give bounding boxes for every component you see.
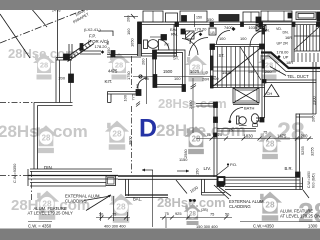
svg-text:1050: 1050 <box>130 38 135 47</box>
svg-text:200: 200 <box>59 76 66 81</box>
svg-text:600 (G/D): 600 (G/D) <box>312 173 316 188</box>
svg-text:1750: 1750 <box>126 71 131 80</box>
svg-text:150: 150 <box>195 168 200 175</box>
svg-text:BATH: BATH <box>244 106 254 111</box>
svg-text:D: D <box>139 115 157 143</box>
svg-text:150: 150 <box>248 69 255 74</box>
svg-text:350: 350 <box>106 47 111 54</box>
svg-text:VD.: VD. <box>276 27 282 31</box>
svg-text:75: 75 <box>207 132 211 137</box>
svg-text:100: 100 <box>126 28 131 35</box>
svg-text:CH: CH <box>267 91 273 96</box>
svg-text:2300: 2300 <box>312 96 317 105</box>
svg-text:1035: 1035 <box>249 25 258 30</box>
svg-text:90: 90 <box>106 41 110 45</box>
svg-text:LB: LB <box>211 31 216 35</box>
svg-text:TEL. DUCT: TEL. DUCT <box>287 74 309 79</box>
svg-text:200: 200 <box>126 15 131 22</box>
svg-text:C.W.=4350: C.W.=4350 <box>253 224 275 229</box>
svg-text:(LX2-41.): (LX2-41.) <box>84 27 101 32</box>
svg-text:150 300 400: 150 300 400 <box>196 224 218 229</box>
svg-text:200: 200 <box>311 115 316 122</box>
svg-text:200: 200 <box>301 134 309 139</box>
svg-text:1535: 1535 <box>222 70 232 75</box>
svg-text:DN.: DN. <box>283 31 289 35</box>
svg-text:C.W. = 4350: C.W. = 4350 <box>28 224 52 229</box>
svg-text:75: 75 <box>165 211 169 216</box>
svg-text:C.W.=1650: C.W.=1650 <box>307 171 311 188</box>
svg-text:RM.: RM. <box>171 32 178 37</box>
svg-text:18R: 18R <box>286 60 293 65</box>
svg-text:100: 100 <box>174 76 181 81</box>
svg-text:F.P.: F.P. <box>89 34 96 39</box>
svg-text:200: 200 <box>141 58 146 65</box>
svg-text:(2B): (2B) <box>201 208 208 212</box>
svg-text:925: 925 <box>175 211 182 216</box>
svg-text:5255: 5255 <box>300 146 305 155</box>
svg-text:150: 150 <box>196 16 202 20</box>
svg-text:75: 75 <box>263 130 267 135</box>
svg-text:KIT.: KIT. <box>105 79 113 84</box>
svg-text:100: 100 <box>123 94 128 101</box>
svg-text:4475: 4475 <box>108 69 118 74</box>
svg-text:DN.: DN. <box>264 29 270 33</box>
svg-text:B.R.: B.R. <box>285 166 293 171</box>
svg-text:ST.: ST. <box>173 56 179 61</box>
svg-text:75: 75 <box>229 128 233 133</box>
svg-text:925: 925 <box>216 132 223 137</box>
svg-text:F.E: F.E <box>165 43 171 47</box>
svg-text:200: 200 <box>212 76 219 81</box>
svg-text:1500: 1500 <box>163 69 173 74</box>
svg-text:1830: 1830 <box>244 134 254 139</box>
svg-text:LIV.: LIV. <box>204 166 212 171</box>
svg-text:AT LEVEL 179.25 ON: AT LEVEL 179.25 ON <box>280 214 320 219</box>
svg-text:75: 75 <box>112 212 116 217</box>
svg-text:C.W.=9350: C.W.=9350 <box>12 163 17 183</box>
svg-text:950: 950 <box>135 83 140 90</box>
svg-text:S.P.: S.P. <box>189 198 196 203</box>
svg-text:2580: 2580 <box>183 149 188 158</box>
svg-text:179.20: 179.20 <box>195 27 208 32</box>
svg-text:775: 775 <box>131 94 136 101</box>
svg-text:400 300 400: 400 300 400 <box>104 224 126 229</box>
svg-text:ST.: ST. <box>219 53 225 58</box>
svg-text:1475: 1475 <box>277 134 287 139</box>
svg-text:150: 150 <box>207 17 214 22</box>
svg-text:3255: 3255 <box>310 147 315 156</box>
svg-text:AT LEVEL 179.25 ONLY: AT LEVEL 179.25 ONLY <box>28 211 73 216</box>
svg-text:75: 75 <box>143 77 147 81</box>
svg-text:1625: 1625 <box>190 69 200 74</box>
svg-text:DIN.: DIN. <box>44 165 53 170</box>
svg-text:P.D.: P.D. <box>230 162 237 167</box>
svg-text:100: 100 <box>240 36 247 41</box>
svg-text:2150: 2150 <box>188 100 193 109</box>
svg-text:UP: UP <box>283 55 289 60</box>
svg-text:UP: UP <box>203 71 209 76</box>
svg-text:75: 75 <box>210 212 214 217</box>
svg-text:16R: 16R <box>285 35 292 40</box>
svg-text:200: 200 <box>265 69 272 74</box>
svg-text:20R: 20R <box>202 77 209 82</box>
svg-text:CLADDING: CLADDING <box>65 198 87 203</box>
svg-text:BAL.: BAL. <box>133 197 142 202</box>
svg-text:CLADDING: CLADDING <box>229 204 251 209</box>
svg-text:3800: 3800 <box>128 136 133 145</box>
svg-text:100: 100 <box>219 36 226 41</box>
svg-text:UP 2R: UP 2R <box>277 41 289 46</box>
svg-text:1300: 1300 <box>308 224 318 229</box>
svg-text:28: 28 <box>277 118 305 146</box>
